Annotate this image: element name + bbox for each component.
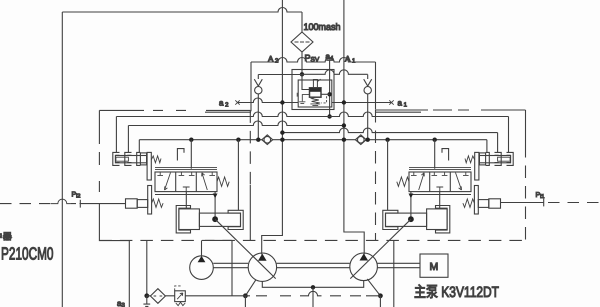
spring left compensator — [151, 156, 161, 163]
svg-text:a 1: a 1 — [398, 99, 408, 109]
wire filter to Psv valve — [301, 52, 303, 74]
cup 1 — [113, 152, 120, 165]
spring Pi1 — [463, 199, 475, 207]
filter F1 100mesh — [291, 32, 313, 52]
cup 3 — [137, 152, 141, 165]
wire valve to servo feedback with arrow — [214, 192, 216, 220]
cup 3r — [486, 152, 490, 165]
right compensator piston group — [465, 152, 513, 180]
valve body right — [409, 172, 471, 192]
wire filter supply drop — [301, 12, 303, 32]
cup 2r — [495, 152, 502, 165]
wire drop P3 to left compensator — [138, 140, 140, 153]
right servo piston — [350, 206, 450, 279]
wire a2-a1 cross line — [238, 98, 392, 102]
dashed border right regulator box right edge — [525, 110, 527, 145]
wire ball right drop to P3 — [367, 94, 369, 140]
svg-text:主泵 K3V112DT: 主泵 K3V112DT — [414, 284, 499, 301]
dashed border right regulator box left edge — [375, 110, 377, 240]
valve U1 Psv reducing valve body — [310, 88, 322, 97]
wire drop P3 to right valve rail — [434, 140, 436, 169]
valve bottom feedback rail — [155, 194, 215, 196]
wire pump1 suction diagonal — [245, 280, 255, 296]
cup 2 — [125, 152, 132, 165]
spring relief — [176, 302, 185, 305]
dashed border left regulator box top — [99, 109, 250, 111]
servo big piston — [179, 209, 200, 230]
wire drop P2 to left compensator — [127, 126, 129, 153]
wire pilot supply overlay on border — [205, 239, 232, 241]
wire drop P3mid to right compensator — [497, 133, 499, 153]
compensator push plate — [147, 152, 151, 180]
left main spool valve — [155, 149, 229, 220]
wire A1 port vertical from top to pump2 jog — [344, 0, 364, 255]
valve arrow cell1 right — [419, 173, 425, 190]
svg-text:P210CM0: P210CM0 — [1, 244, 54, 264]
wire drop P1 to right compensator — [508, 117, 510, 153]
wire a4 vertical to pilot bus P1 — [329, 60, 331, 116]
wire R0 right side — [375, 62, 377, 110]
port tick Pi1 — [543, 199, 545, 207]
wire Pi2 solid to piston — [80, 203, 125, 205]
valve rail double line — [155, 168, 217, 170]
servo rod — [199, 213, 240, 226]
wire center block top rail R0 with hops — [251, 58, 376, 63]
port plug a2 cross — [235, 100, 239, 104]
wire a4 port tick — [326, 59, 333, 61]
node junction P3mid start — [280, 130, 284, 134]
suction filter F2 — [150, 289, 165, 304]
wire suction stubs to bottom edge — [245, 296, 380, 307]
servo right cap — [228, 210, 243, 229]
pilot pump P3 gear pump — [190, 256, 214, 280]
valve arrow cell3 — [202, 173, 208, 190]
tank symbol bottom left — [143, 296, 150, 307]
node junction filter line on rect A top — [300, 72, 304, 76]
valve U1 tank bar — [310, 104, 320, 106]
wire valve to servo feedback right with arrow — [410, 192, 412, 220]
shaft lines pump1 to pump2 — [277, 263, 350, 267]
node junction P2 end at A1 vertical — [342, 123, 346, 127]
wire A2 port vertical from top to pump1 jog — [262, 0, 283, 255]
wire a3 branch from Pi2 area — [99, 204, 129, 307]
spring right valve left side — [397, 177, 409, 186]
wire left boundary vertical — [61, 12, 63, 307]
svg-text:Pi1: Pi1 — [536, 192, 545, 200]
wire regulator drain to tank line — [231, 240, 233, 295]
wire seat supply line y74.5 — [258, 70, 367, 75]
node servo feedback joint right — [408, 216, 414, 222]
compensator head — [140, 153, 146, 165]
wire Psv inlet elbow — [302, 74, 310, 89]
shaft lines pump2 to motor — [377, 263, 420, 267]
dashed border right regulator box top — [376, 109, 526, 111]
rect B innermost envelope around Psv valve — [298, 80, 332, 107]
node junction pump manifold drain — [311, 285, 315, 289]
check valve ball left — [255, 87, 262, 94]
wire drop P3 to left servo rod side — [237, 140, 239, 211]
wire ball left drop to P3 — [257, 94, 259, 140]
wire B1 stub right — [376, 111, 422, 113]
valve U1 spring — [312, 97, 319, 104]
check valve ball left seat — [254, 75, 262, 87]
wire bus P2 pump2 pressure to left regulator — [128, 121, 344, 126]
svg-text:器: 器 — [3, 231, 12, 241]
wire pump2 suction diagonal — [367, 279, 380, 296]
left compensator piston group — [113, 152, 161, 180]
valve U1 pin — [313, 80, 317, 88]
compensator rod right — [479, 156, 510, 163]
node junction a2a1 line at A1 vertical — [342, 100, 346, 104]
valve cell2 tank port — [183, 187, 190, 192]
node junction a4 to Psv output — [327, 92, 331, 96]
link servo to pump1 swashplate — [215, 219, 276, 278]
cup 1r — [507, 152, 514, 165]
node servo feedback joint — [212, 216, 218, 222]
wire top boundary with hop over pump1 outlet — [62, 8, 302, 12]
wire manifold drain drop — [312, 287, 314, 307]
wire tank line solid segments — [147, 295, 250, 297]
valve arrow cell1 — [165, 173, 171, 190]
valve arrow cell3 right — [456, 173, 462, 190]
wire B1 stub left — [205, 111, 251, 113]
dashed pilot sense — [175, 286, 182, 291]
node junction suction right — [378, 293, 383, 298]
svg-text:Pi2: Pi2 — [72, 192, 81, 200]
dashed border bottom — [99, 239, 525, 241]
right main spool valve — [397, 149, 471, 220]
wire tank line dashes with hop — [256, 291, 380, 296]
valve bottom feedback rail right — [411, 194, 471, 196]
pilot push plate right — [474, 186, 478, 215]
dashed border left regulator box right edge — [249, 110, 251, 185]
wire pilot pump outlet to border — [201, 240, 203, 256]
motor M box — [420, 254, 448, 277]
wire valve to servo left chamber — [185, 192, 187, 209]
wire valve to servo chamber right — [439, 192, 441, 209]
rect A inner envelope around Psv valve — [292, 70, 334, 110]
pilot push plate — [148, 186, 152, 215]
svg-text:A 1: A 1 — [345, 55, 356, 65]
wire Psv output to a4 — [321, 93, 330, 95]
svg-text:A 2: A 2 — [268, 55, 279, 65]
servo rod r — [386, 213, 427, 226]
check valve D1 left — [262, 135, 273, 145]
servo left cap — [176, 206, 190, 233]
valve cell2 tank port right — [436, 187, 443, 192]
svg-text:冲: 冲 — [0, 231, 2, 241]
wire pump bottoms manifold — [262, 280, 363, 287]
shaft lines pilot to pump1 — [213, 263, 248, 267]
svg-text:a3: a3 — [117, 299, 125, 307]
node junction tank left — [144, 293, 149, 298]
compensator rod — [115, 156, 146, 163]
right pilot piston Pi1 — [463, 186, 501, 215]
relief valve pilot — [175, 286, 186, 306]
dashed border left regulator box left edge — [98, 110, 100, 192]
port plug a1 cross — [389, 100, 393, 104]
node junction suction left — [243, 293, 248, 298]
link servo to pump2 swashplate — [350, 219, 411, 278]
spring Pi2 — [152, 199, 163, 207]
valve U1 drain port left elbow to tank — [297, 93, 309, 104]
node junction a2a1 line at A2 vertical — [280, 100, 284, 104]
spring right compensator — [465, 156, 475, 163]
servo right cap r — [436, 206, 450, 233]
valve rail double line right — [409, 168, 471, 170]
check valve ball right — [364, 87, 371, 94]
main pump 2 — [350, 253, 378, 281]
valve U1 dashed pilot bracket — [321, 96, 326, 103]
left servo piston — [176, 206, 276, 279]
wire bus P1 pilot line — [116, 112, 508, 117]
wire left box tank drop — [146, 240, 148, 295]
port tick Pi2 — [79, 200, 81, 208]
check valve ball right seat — [364, 75, 372, 87]
node junction a4 to P1 bus — [327, 114, 331, 118]
pilot lever elbow — [177, 149, 184, 161]
svg-text:a 2: a 2 — [219, 99, 229, 109]
left pilot piston Pi2 — [126, 186, 164, 215]
servo big piston r — [427, 209, 448, 230]
pilot lever elbow right — [442, 149, 449, 161]
compensator push plate right — [475, 152, 479, 180]
wire R0 left side — [250, 62, 252, 111]
node junctions on P3 — [189, 138, 193, 142]
wire Pi2 port line dashed outside — [0, 203, 51, 205]
wire Pi1 dashed outside — [548, 202, 600, 204]
wire right box drain drop — [393, 240, 395, 307]
wire drop P3 to right servo rod side — [387, 140, 389, 211]
spring left valve right side — [217, 177, 229, 186]
wire bus P3 delivery line — [139, 139, 487, 141]
svg-text:M: M — [430, 261, 439, 273]
wire drop P1 to left compensator — [115, 117, 117, 153]
valve body — [155, 172, 217, 192]
svg-text:100mash: 100mash — [304, 22, 341, 33]
compensator head right — [479, 153, 485, 165]
wire drop P3 to left valve rail — [190, 140, 192, 169]
wire drop P3 to right compensator — [486, 140, 488, 153]
servo left cap r — [383, 210, 398, 229]
valve port ticks — [157, 172, 215, 175]
valve port ticks right — [411, 172, 469, 175]
main pump 1 — [248, 253, 276, 281]
wire Pi1 port line — [501, 202, 544, 204]
wire bus P3mid pump1 pressure to right regulator — [282, 128, 497, 133]
check valve D2 right — [355, 135, 366, 145]
